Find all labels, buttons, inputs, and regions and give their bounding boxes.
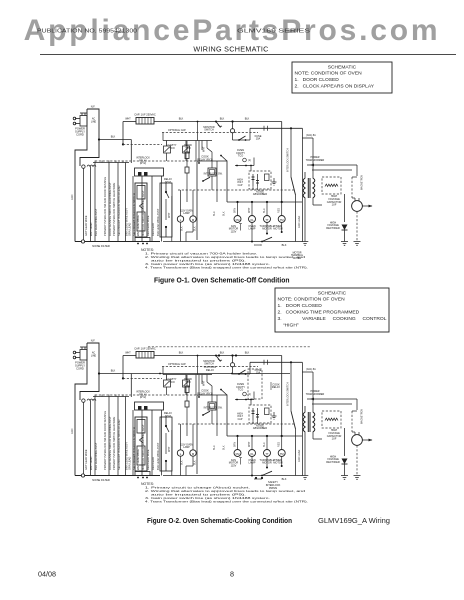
svg-text:WHT LEAD: WHT LEAD [89,223,93,236]
svg-text:GRY LEAD WIRE: GRY LEAD WIRE [84,215,88,236]
schematic 1 interlock bus wires [83,163,161,242]
svg-text:(FA1) 8A: (FA1) 8A [306,134,316,137]
svg-text:SECONDARY INTERLOCK SWITCH: SECONDARY INTERLOCK SWITCH [132,427,136,470]
svg-text:WHT: WHT [203,146,206,152]
svg-text:LAMP: LAMP [183,212,190,215]
svg-text:PRIMARY INTERLOCK SWITCH LEAD: PRIMARY INTERLOCK SWITCH LEAD WIRE [112,417,116,470]
svg-text:GLMV169G_A Wiring: GLMV169G_A Wiring [318,516,390,525]
schematic 1 wire left edge [71,158,75,242]
schematic 1 dashed linkage optional [162,129,258,141]
svg-text:RED LEAD: RED LEAD [151,223,155,236]
svg-text:BLU: BLU [213,445,216,450]
svg-text:GRN: GRN [71,194,74,200]
svg-text:INTERLOCK SWITCH: INTERLOCK SWITCH [287,148,290,172]
svg-text:BLK: BLK [181,226,184,231]
svg-text:LAMP: LAMP [183,446,190,449]
schematic 2 lamp feed wire [168,430,172,476]
schematic 1 capacitor C1 line filter [136,118,154,125]
schematic 2 wire transformer top arrow [307,398,357,410]
schematic 2 fan motor bracket [239,458,242,465]
schematic 2 relay RY1 contacts [208,386,216,424]
svg-text:BLU: BLU [213,211,216,216]
svg-text:ORN LEAD: ORN LEAD [128,457,132,470]
svg-text:Figure O-1. Oven Schematic-Off: Figure O-1. Oven Schematic-Off Condition [154,277,290,284]
schematic 1 absorber label [253,189,267,196]
svg-text:04/08: 04/08 [38,570,56,579]
schematic 1 magnetron MG [352,175,373,242]
svg-text:M: M [192,218,195,222]
svg-text:3. VARIABLE COOKING CONTROL: 3. VARIABLE COOKING CONTROL [278,316,387,322]
schematic 1 relay RY1 contacts [208,152,216,190]
schematic 2 resistor R1 [185,375,189,401]
svg-text:SECONDARY INTERLOCK SWITCH LEA: SECONDARY INTERLOCK SWITCH LEAD [117,420,121,470]
schematic 1 cavity TCO label [167,143,191,150]
schematic 1 absorber dashed box [249,171,271,190]
schematic 1 relay RY1 label [197,155,213,162]
schematic 2 wire secondary rail [250,360,302,365]
svg-text:RECTIFIER: RECTIFIER [326,460,340,464]
schematic 1 HV capacitor dashed box [322,177,341,194]
schematic 2 wire filter to junction [98,370,290,398]
svg-text:DOOR SENSING SWITCH LEAD WIRE: DOOR SENSING SWITCH LEAD WIRE ASSY [108,416,112,470]
schematic 1 ground G1 [341,242,348,246]
schematic 1 turntable motor TTM [260,202,275,235]
schematic 2 dashed linkage upper [95,394,197,396]
schematic 1 timer motor TM [273,202,285,233]
svg-text:RELAY (RY1): RELAY (RY1) [197,157,213,161]
schematic 1 wire monitor switch to node B [197,121,282,141]
schematic 1 secondary interlock switch column [160,183,172,237]
schematic 2 fuse label [255,368,262,375]
svg-text:TM: TM [280,218,284,222]
svg-text:CORD: CORD [76,367,84,371]
schematic 2 safety interlock label [255,477,281,490]
schematic 2 junction dots on supply wire [218,354,237,356]
schematic 1 resistor R2 [185,167,189,202]
svg-text:BLK: BLK [282,477,287,481]
svg-text:BLK: BLK [111,370,116,373]
svg-text:SECONDARY INTERLOCK SWITCH LEA: SECONDARY INTERLOCK SWITCH LEAD [117,186,121,236]
schematic 2 capacitor C1 line filter [136,352,154,359]
schematic 2 fan motor FM [229,436,241,467]
svg-text:RED: RED [278,208,281,213]
schematic 1 oven cavity TCO label [236,148,245,158]
svg-text:RED: RED [278,442,281,447]
schematic 2 cook relay label [271,382,280,390]
schematic 2 HV capacitor label [327,428,342,440]
svg-text:OL: OL [250,218,254,222]
schematic 1 relay contact row [163,141,212,162]
schematic 2 wire node B down [220,352,282,437]
schematic 2 dashed control line [148,346,310,348]
svg-text:BLK: BLK [245,352,250,355]
svg-text:BLK: BLK [220,118,225,121]
svg-text:“HIGH”: “HIGH” [283,323,299,329]
svg-text:BLU: BLU [263,208,266,213]
schematic 1 HV rectifier diode D1 [342,194,348,242]
schematic 1 bottom bus wire left [75,240,160,243]
svg-text:SCHEMATIC: SCHEMATIC [328,65,357,71]
schematic 2 oven lamp motor 2 [248,436,255,476]
schematic 2 control relay label [204,365,217,372]
svg-text:SCHEMATIC: SCHEMATIC [318,291,347,297]
schematic 2 motor lead labels [233,441,280,447]
svg-text:115V: 115V [231,463,237,467]
svg-text:GRY LEAD WIRE: GRY LEAD WIRE [84,449,88,470]
svg-text:BRN: BRN [233,442,236,447]
svg-text:WHT: WHT [248,207,251,213]
schematic 1 terminal note label [291,251,304,260]
svg-text:GRN: GRN [71,428,74,434]
svg-text:WIRING SCHEMATIC: WIRING SCHEMATIC [193,45,268,54]
svg-text:1. DOOR CLOSED: 1. DOOR CLOSED [278,303,323,309]
svg-text:LINE: LINE [91,355,97,358]
svg-text:NOISE FILTER: NOISE FILTER [92,244,110,248]
svg-text:FM: FM [236,452,240,456]
svg-text:BLK LEAD WIRE ASSY: BLK LEAD WIRE ASSY [156,442,160,470]
svg-text:BLK: BLK [193,460,196,465]
schematic 2 HV rectifier label [326,454,340,464]
svg-text:PRIMARY INTERLOCK SW AND DOOR: PRIMARY INTERLOCK SW AND DOOR SENSING [103,177,107,236]
svg-text:WHT LEAD: WHT LEAD [89,457,93,470]
svg-text:BLK: BLK [223,445,226,450]
schematic 2 ground G0 transformer [302,476,309,480]
svg-text:15A: 15A [256,137,261,141]
svg-text:SWITCH: SWITCH [204,363,214,366]
schematic 2 bottom bus wire right [163,471,302,481]
schematic 2 wire to capacitor [122,352,136,380]
svg-text:BLK: BLK [193,226,196,231]
schematic 1 wire capacitor to monitor switch [154,118,217,122]
svg-text:VOLT: VOLT [237,182,243,184]
schematic 1 dashed linkage upper [95,160,197,162]
schematic 1 absorber ground [272,178,277,185]
svg-text:MONITOR SWITCH LEAD WIRE ASSY: MONITOR SWITCH LEAD WIRE ASSY [141,190,145,236]
schematic 1 motor lead labels [233,207,280,213]
schematic 2 timer motor TM [273,436,285,467]
svg-text:MAGNETRON: MAGNETRON [361,175,364,190]
schematic 1 stirrer motor SM [186,190,196,242]
svg-text:TM: TM [280,452,284,456]
svg-text:BLK: BLK [181,460,184,465]
svg-text:BLK: BLK [111,136,116,139]
svg-text:TRANSFORMER: TRANSFORMER [306,393,325,396]
schematic 1 oven lamp motor OL [177,190,193,242]
svg-text:L: L [180,452,182,456]
svg-text:115V: 115V [231,229,237,233]
schematic 1 ground G2 [354,242,361,246]
schematic 2 oven loop rectangle [197,395,227,474]
schematic 2 motor bus wire [227,435,302,437]
schematic 1 relay RY1 coil wires [198,141,227,164]
svg-text:WHT: WHT [248,441,251,447]
svg-text:CAP: CAP [238,418,243,421]
svg-text:4. Trans Transformer (Bias lea: 4. Trans Transformer (Bias lead) snapped… [145,265,308,269]
svg-text:HIGH: HIGH [237,179,243,181]
schematic 2 noise filter box [75,339,99,403]
schematic 1 resistor R1 [185,141,189,167]
schematic 2 absorber feed wire [235,392,254,422]
svg-text:M: M [192,452,195,456]
schematic 1 power transformer T1 label [306,156,325,162]
svg-text:TCO: TCO [185,146,190,150]
svg-text:15A: 15A [256,371,261,375]
svg-text:(RY2): (RY2) [140,162,146,165]
schematic 2 ground G1 [341,476,348,480]
svg-text:VOLT: VOLT [237,416,243,418]
schematic 1 dashed linkage from junction [123,143,162,145]
schematic 2 loop inner wire [213,395,226,450]
svg-text:BLK: BLK [245,118,250,121]
svg-text:4. Trans Transformer (Bias lea: 4. Trans Transformer (Bias lead) snapped… [145,499,308,503]
schematic 2 oven lamp motor OL [177,424,193,476]
schematic 1 monitor switch SW1 [203,121,222,132]
schematic 1 oven lamp motor 2 [248,202,255,242]
schematic 2 dashed linkage optional [162,363,258,375]
svg-text:CAP. 1UF 250VAC: CAP. 1UF 250VAC [134,113,156,117]
schematic 2 resistor R2 [185,401,189,436]
svg-text:2. COOKING TIME PROGRAMMED: 2. COOKING TIME PROGRAMMED [278,310,360,316]
svg-text:SECONDARY INTERLOCK SWITCH: SECONDARY INTERLOCK SWITCH [132,193,136,236]
schematic 2 wire monitor switch to node B [197,355,282,375]
schematic 2 wire left edge [71,392,75,476]
schematic 2 stirrer motor SM [186,424,196,476]
svg-text:TT: TT [265,218,269,222]
notes block schematic 1 [141,248,308,269]
schematic 1 wire right rail [298,128,302,241]
svg-text:RELAY (RY1): RELAY (RY1) [197,391,213,395]
schematic 2 power transformer T1 label [306,390,325,396]
schematic 1 power supply cord label [75,127,85,137]
svg-text:L: L [180,218,182,222]
note box schematic 1 [292,62,392,93]
svg-text:NOISE FILTER: NOISE FILTER [92,478,110,482]
schematic 1 interlock bus labels [84,177,160,236]
schematic 2 turntable motor TTM [260,436,275,469]
svg-text:TT: TT [265,452,269,456]
svg-text:TCO: TCO [169,380,174,384]
schematic 2 oven cavity TCO label [236,382,245,392]
svg-text:TCO: TCO [238,388,243,392]
svg-text:INTERLOCK SW.: INTERLOCK SW. [204,173,223,176]
schematic 2 ground G2 [354,476,361,480]
svg-text:1UF: 1UF [332,203,337,207]
schematic 2 wire capacitor to monitor switch [154,352,217,356]
svg-text:PRIMARY INTERLOCK SWITCH LEAD: PRIMARY INTERLOCK SWITCH LEAD WIRE [112,183,116,236]
schematic 1 motor bus wire [227,201,302,203]
svg-text:BLU LEAD WIRE ASSY: BLU LEAD WIRE ASSY [94,442,98,470]
schematic 1 oven loop rectangle [197,161,227,240]
schematic 2 monitor switch SW1 [203,355,222,366]
schematic 2 interlock relay RY2 label [136,391,150,400]
schematic 2 oven TCO [230,354,234,374]
svg-text:BLK LEAD WIRE ASSY: BLK LEAD WIRE ASSY [156,208,160,236]
svg-text:2. CLOCK APPEARS ON DISPLAY: 2. CLOCK APPEARS ON DISPLAY [295,84,375,90]
svg-text:NOTE: CONDITION OF OVEN: NOTE: CONDITION OF OVEN [295,71,363,77]
svg-text:INTERLOCK SWITCH: INTERLOCK SWITCH [287,382,290,406]
schematic 2 absorber ground [272,412,277,419]
svg-text:OPTIONAL CAP.: OPTIONAL CAP. [168,129,186,132]
schematic 2 power supply cord plug [73,347,87,360]
schematic 2 relay RY1 label [197,389,213,396]
schematic 2 power transformer T1 [302,372,322,476]
svg-text:MONITOR SWITCH LEAD WIRE ASSY: MONITOR SWITCH LEAD WIRE ASSY [141,424,145,470]
schematic 2 door sensing switch assembly [135,402,173,478]
schematic 2 magnetron MG [352,409,373,476]
svg-text:DOOR SENSING SWITCH LEAD WIRE: DOOR SENSING SWITCH LEAD WIRE ASSY [108,182,112,236]
svg-text:PRIMARY INTERLOCK SW AND DOOR: PRIMARY INTERLOCK SW AND DOOR SENSING [103,411,107,470]
schematic 2 fuse F1 [233,362,251,375]
svg-text:ABSORBER: ABSORBER [253,192,267,196]
schematic 1 power transformer T1 [302,138,322,242]
schematic 1 interlock relay RY2 label [136,157,150,166]
schematic 2 bottom bus wire left [75,474,160,477]
schematic 2 absorber label [253,423,267,430]
svg-text:WHT: WHT [168,446,171,452]
svg-text:DOOR: DOOR [254,243,262,247]
svg-text:OPTIONAL CAP.: OPTIONAL CAP. [168,363,186,366]
svg-text:1UF: 1UF [332,437,337,441]
schematic 1 terminal strip [93,161,129,163]
svg-text:WHT: WHT [125,352,131,355]
schematic 2 wire right rail [298,362,302,475]
schematic 1 power supply cord plug [73,113,87,126]
header rule line [40,54,456,56]
svg-text:GRN LEAD: GRN LEAD [298,216,301,228]
schematic 1 loop inner wire [213,161,226,216]
schematic 2 HV capacitor dashed box [322,411,341,428]
schematic 1 wire transformer top arrow [307,164,357,176]
schematic 1 door sensing switch assembly [135,168,173,244]
schematic 2 dashed linkage from junction [123,377,162,379]
schematic 2 absorber dashed box [249,405,271,424]
schematic 1 lamp feed wire [168,196,172,242]
schematic 1 noise filter box [75,105,99,169]
schematic 1 bottom bus wire right [163,237,302,247]
svg-text:ORN LEAD: ORN LEAD [128,223,132,236]
schematic 2 secondary interlock switch column [160,417,172,471]
svg-text:RELAY: RELAY [272,385,280,389]
svg-text:TCO: TCO [185,380,190,384]
notes block schematic 2 [141,482,308,504]
schematic 1 wire filter to junction [98,136,131,164]
schematic 1 ground G0 transformer [302,242,309,246]
schematic 2 cavity TCO label [167,377,191,384]
svg-text:GLMV169 SERIES: GLMV169 SERIES [237,29,311,35]
schematic 2 interlock relay dashed enclosure [248,369,262,399]
svg-text:ABSORBER: ABSORBER [253,426,267,430]
svg-text:OL: OL [250,452,254,456]
svg-text:BLU: BLU [263,442,266,447]
schematic 2 terminal strip [93,395,129,397]
svg-text:N.F.: N.F. [91,339,96,343]
svg-text:RED LEAD: RED LEAD [151,457,155,470]
svg-text:TCO: TCO [169,146,174,150]
svg-text:FM: FM [236,218,240,222]
schematic 1 absorber feed wire [235,158,254,188]
svg-text:WHT: WHT [203,380,206,386]
schematic 2 dashed interlock linkage line [178,423,295,425]
schematic 1 HV rectifier label [326,220,340,230]
svg-text:LINE: LINE [91,121,97,124]
schematic 1 dashed interlock linkage line [178,189,295,191]
svg-text:BLK: BLK [282,243,287,247]
schematic 1 fan motor FM [229,202,241,233]
svg-text:TRANSFORMER: TRANSFORMER [306,159,325,162]
schematic 1 HV capacitor label [327,194,342,206]
svg-text:N.F.: N.F. [91,105,96,109]
svg-text:RECTIFIER: RECTIFIER [326,226,340,230]
svg-text:BLK: BLK [223,211,226,216]
schematic 1 wire to capacitor [122,118,136,146]
svg-text:TCO: TCO [238,154,243,158]
svg-text:NOTE: CONDITION OF OVEN: NOTE: CONDITION OF OVEN [278,297,346,303]
schematic 2 HV rectifier diode D1 [342,428,348,476]
svg-text:(RY2): (RY2) [140,396,146,399]
schematic 1 interlock switch right [287,128,296,241]
schematic 1 oven TCO [230,120,234,140]
svg-text:WHT: WHT [125,118,131,121]
svg-text:PUBLICATION NO. 5995421300: PUBLICATION NO. 5995421300 [37,29,137,35]
schematic 2 relay RY1 coil wires [198,375,227,398]
schematic 1 fuse F1 [233,128,251,141]
svg-text:WHT: WHT [168,212,171,218]
svg-text:GRN LEAD: GRN LEAD [298,450,301,462]
schematic 2 interlock bus labels [84,411,160,470]
svg-text:INTERLOCK SW.: INTERLOCK SW. [204,407,223,410]
schematic 2 interlock switch right [287,362,296,475]
svg-text:HIGH: HIGH [237,413,243,415]
svg-text:MAGNETRON: MAGNETRON [361,409,364,424]
note box schematic 2 [275,288,389,332]
schematic 2 interlock bus wires [83,397,161,476]
svg-text:CAP: CAP [238,184,243,187]
svg-text:1. DOOR CLOSED: 1. DOOR CLOSED [295,77,340,83]
svg-text:CORD: CORD [76,133,84,137]
schematic 2 power supply cord label [75,361,85,371]
svg-text:BLK: BLK [220,352,225,355]
schematic 1 fuse label [255,134,262,141]
schematic 1 wire secondary rail [250,126,302,131]
schematic 2 relay contact row [163,375,212,396]
svg-text:BRN: BRN [233,208,236,213]
svg-text:BLK: BLK [179,352,184,355]
schematic 1 fan motor bracket [239,224,242,231]
svg-text:Figure O-2. Oven Schematic-Coo: Figure O-2. Oven Schematic-Cooking Condi… [147,518,292,525]
svg-text:8: 8 [230,570,234,579]
svg-text:BLU LEAD WIRE ASSY: BLU LEAD WIRE ASSY [94,208,98,236]
svg-text:(1): (1) [248,160,251,162]
svg-text:RELAY: RELAY [206,368,214,372]
schematic 1 wire node B down [220,118,282,203]
svg-text:(1): (1) [248,394,251,396]
svg-text:BLK: BLK [179,118,184,121]
svg-text:SWITCH: SWITCH [204,129,214,132]
svg-text:(FA1) 8A: (FA1) 8A [306,368,316,371]
